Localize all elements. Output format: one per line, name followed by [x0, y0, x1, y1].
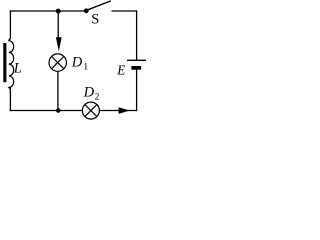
wire left vertical lower	[9, 87, 11, 111]
wire top-left horizontal	[10, 10, 86, 12]
svg-text:D: D	[71, 55, 83, 71]
battery E negative plate	[131, 66, 141, 70]
wire top-right horizontal	[112, 10, 138, 12]
current arrow right (toward battery)	[119, 107, 130, 114]
svg-text:D: D	[83, 85, 95, 101]
wire D1 branch upper	[57, 11, 59, 39]
node junction top (D1 branch)	[56, 9, 61, 14]
wire bottom-left horizontal	[10, 110, 83, 112]
wire left vertical upper	[9, 10, 11, 39]
switch S contact dot	[84, 8, 89, 13]
switch S blade	[87, 1, 111, 10]
wire right vertical upper	[136, 10, 138, 60]
svg-text:S: S	[91, 12, 99, 28]
lamp D1	[49, 54, 66, 71]
battery E positive plate	[127, 59, 146, 61]
svg-text:1: 1	[83, 63, 88, 73]
wire D1 branch lower	[57, 71, 59, 110]
node junction bottom (D1 branch)	[56, 108, 61, 113]
inductor core bar	[3, 43, 6, 82]
lamp D2	[82, 102, 99, 119]
current arrow down (into D1)	[56, 37, 62, 51]
svg-text:2: 2	[95, 93, 100, 103]
inductor L coil	[9, 39, 14, 89]
svg-text:E: E	[116, 63, 125, 78]
svg-text:L: L	[13, 61, 22, 77]
wire bottom-right horizontal	[99, 110, 137, 112]
wire right vertical lower	[136, 70, 138, 112]
